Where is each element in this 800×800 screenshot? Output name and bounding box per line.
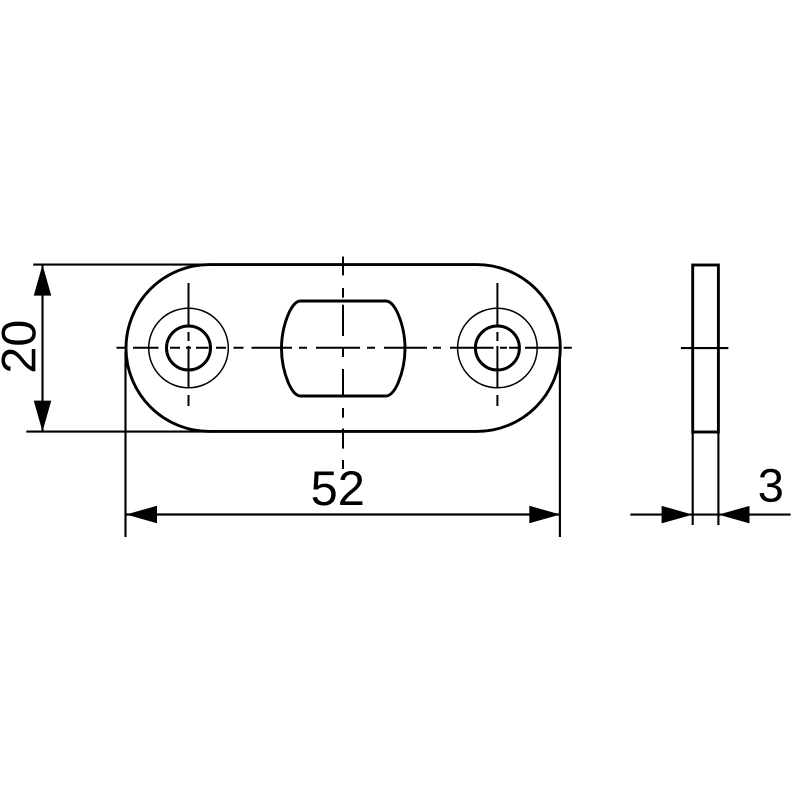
- dim text 20: [2, 322, 36, 372]
- dim text 52: [313, 471, 363, 506]
- right hole outer circle: [458, 308, 538, 388]
- dim 20 arrow down: [34, 401, 52, 432]
- dim text 3: [760, 469, 782, 502]
- vertical centerline left hole: [188, 283, 190, 406]
- dim 52 arrow right: [529, 506, 560, 524]
- dim 52 extension line left: [124, 351, 126, 537]
- dim 3 dimension line left part: [630, 514, 692, 516]
- dim 20 dimension line: [41, 265, 43, 432]
- dim 3 extension line left: [692, 433, 694, 526]
- dim 3 arrow pointing left: [719, 506, 750, 523]
- vertical centerline plate center: [342, 257, 344, 470]
- left hole inner circle: [167, 326, 211, 370]
- dim 3 extension line right: [717, 433, 719, 526]
- dim 52 arrow left: [126, 506, 157, 524]
- dim 20 arrow up: [34, 265, 52, 296]
- left hole outer circle: [149, 308, 229, 388]
- dim 20 extension line top: [33, 264, 211, 266]
- right hole inner circle: [475, 326, 519, 370]
- vertical centerline right hole: [496, 283, 498, 406]
- center cutout: [281, 301, 405, 396]
- dim 20 extension line bottom: [26, 431, 211, 433]
- dim 3 dimension line middle part: [693, 514, 719, 516]
- side view rectangle: [693, 265, 719, 432]
- plate outline front view: [126, 265, 560, 432]
- dim 52 extension line right: [559, 351, 561, 537]
- dim 52 dimension line: [126, 513, 560, 515]
- dim 3 arrow pointing right: [662, 506, 693, 523]
- side view horizontal centerline: [681, 347, 729, 349]
- horizontal centerline main: [117, 347, 572, 349]
- dim 3 dimension line right part: [719, 514, 791, 516]
